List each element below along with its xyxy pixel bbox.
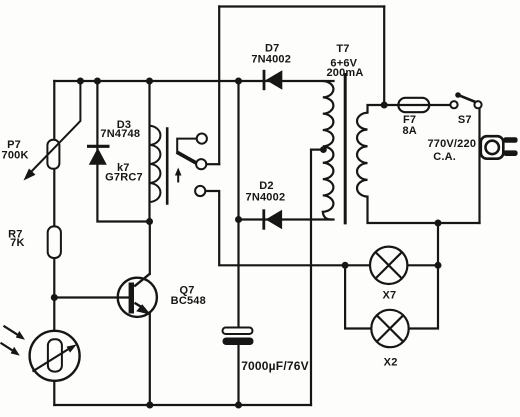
- svg-text:770V/220: 770V/220: [427, 138, 476, 150]
- svg-text:200mA: 200mA: [326, 67, 363, 79]
- svg-text:C.A.: C.A.: [433, 151, 456, 163]
- svg-text:7000µF/76V: 7000µF/76V: [241, 359, 309, 373]
- svg-text:7K: 7K: [10, 237, 24, 249]
- svg-text:S7: S7: [458, 114, 472, 126]
- svg-text:7N4002: 7N4002: [251, 54, 291, 66]
- svg-text:X2: X2: [384, 357, 398, 369]
- svg-text:7N4002: 7N4002: [246, 191, 286, 203]
- svg-text:G7RC7: G7RC7: [105, 172, 143, 184]
- svg-text:BC548: BC548: [171, 295, 206, 307]
- svg-text:X7: X7: [382, 289, 396, 301]
- svg-text:700K: 700K: [2, 150, 29, 162]
- svg-text:F7: F7: [403, 114, 416, 126]
- svg-text:7N4748: 7N4748: [100, 128, 140, 140]
- svg-text:T7: T7: [336, 43, 349, 55]
- svg-text:8A: 8A: [402, 125, 416, 137]
